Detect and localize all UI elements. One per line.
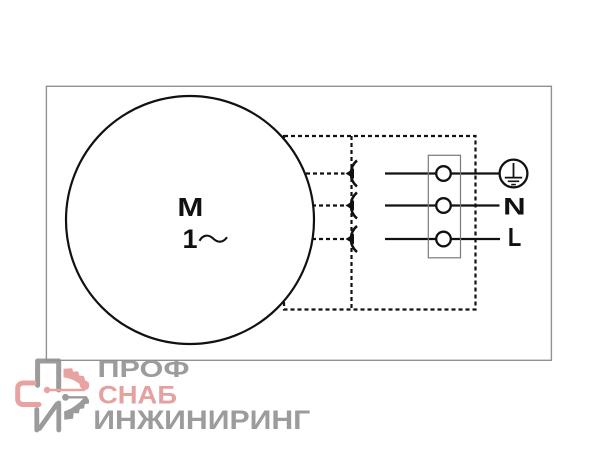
wire N — [385, 204, 500, 206]
svg-text:L: L — [508, 224, 521, 252]
wire L — [385, 238, 500, 240]
watermark logo mark — [18, 361, 90, 430]
terminal N — [436, 198, 451, 213]
wire stub 1 (dashed) — [292, 172, 345, 174]
terminal PE — [436, 166, 451, 181]
svg-text:M: M — [177, 194, 203, 222]
motor M1 circle — [66, 96, 314, 344]
connector plug 2 — [346, 193, 358, 219]
terminal L — [436, 232, 451, 247]
terminal block — [428, 155, 460, 257]
ground symbol — [500, 160, 528, 188]
wire PE — [385, 172, 500, 174]
wire stub 3 (dashed) — [298, 238, 345, 240]
svg-text:N: N — [503, 194, 526, 221]
wire stub 2 (dashed) — [298, 204, 345, 206]
svg-text:ИНЖИНИРИНГ: ИНЖИНИРИНГ — [93, 405, 310, 435]
dashed divider line — [350, 136, 352, 310]
dashed control box — [284, 136, 476, 310]
connector plug 1 — [346, 161, 358, 187]
svg-text:1: 1 — [182, 224, 197, 254]
connector plug 3 — [346, 226, 358, 252]
